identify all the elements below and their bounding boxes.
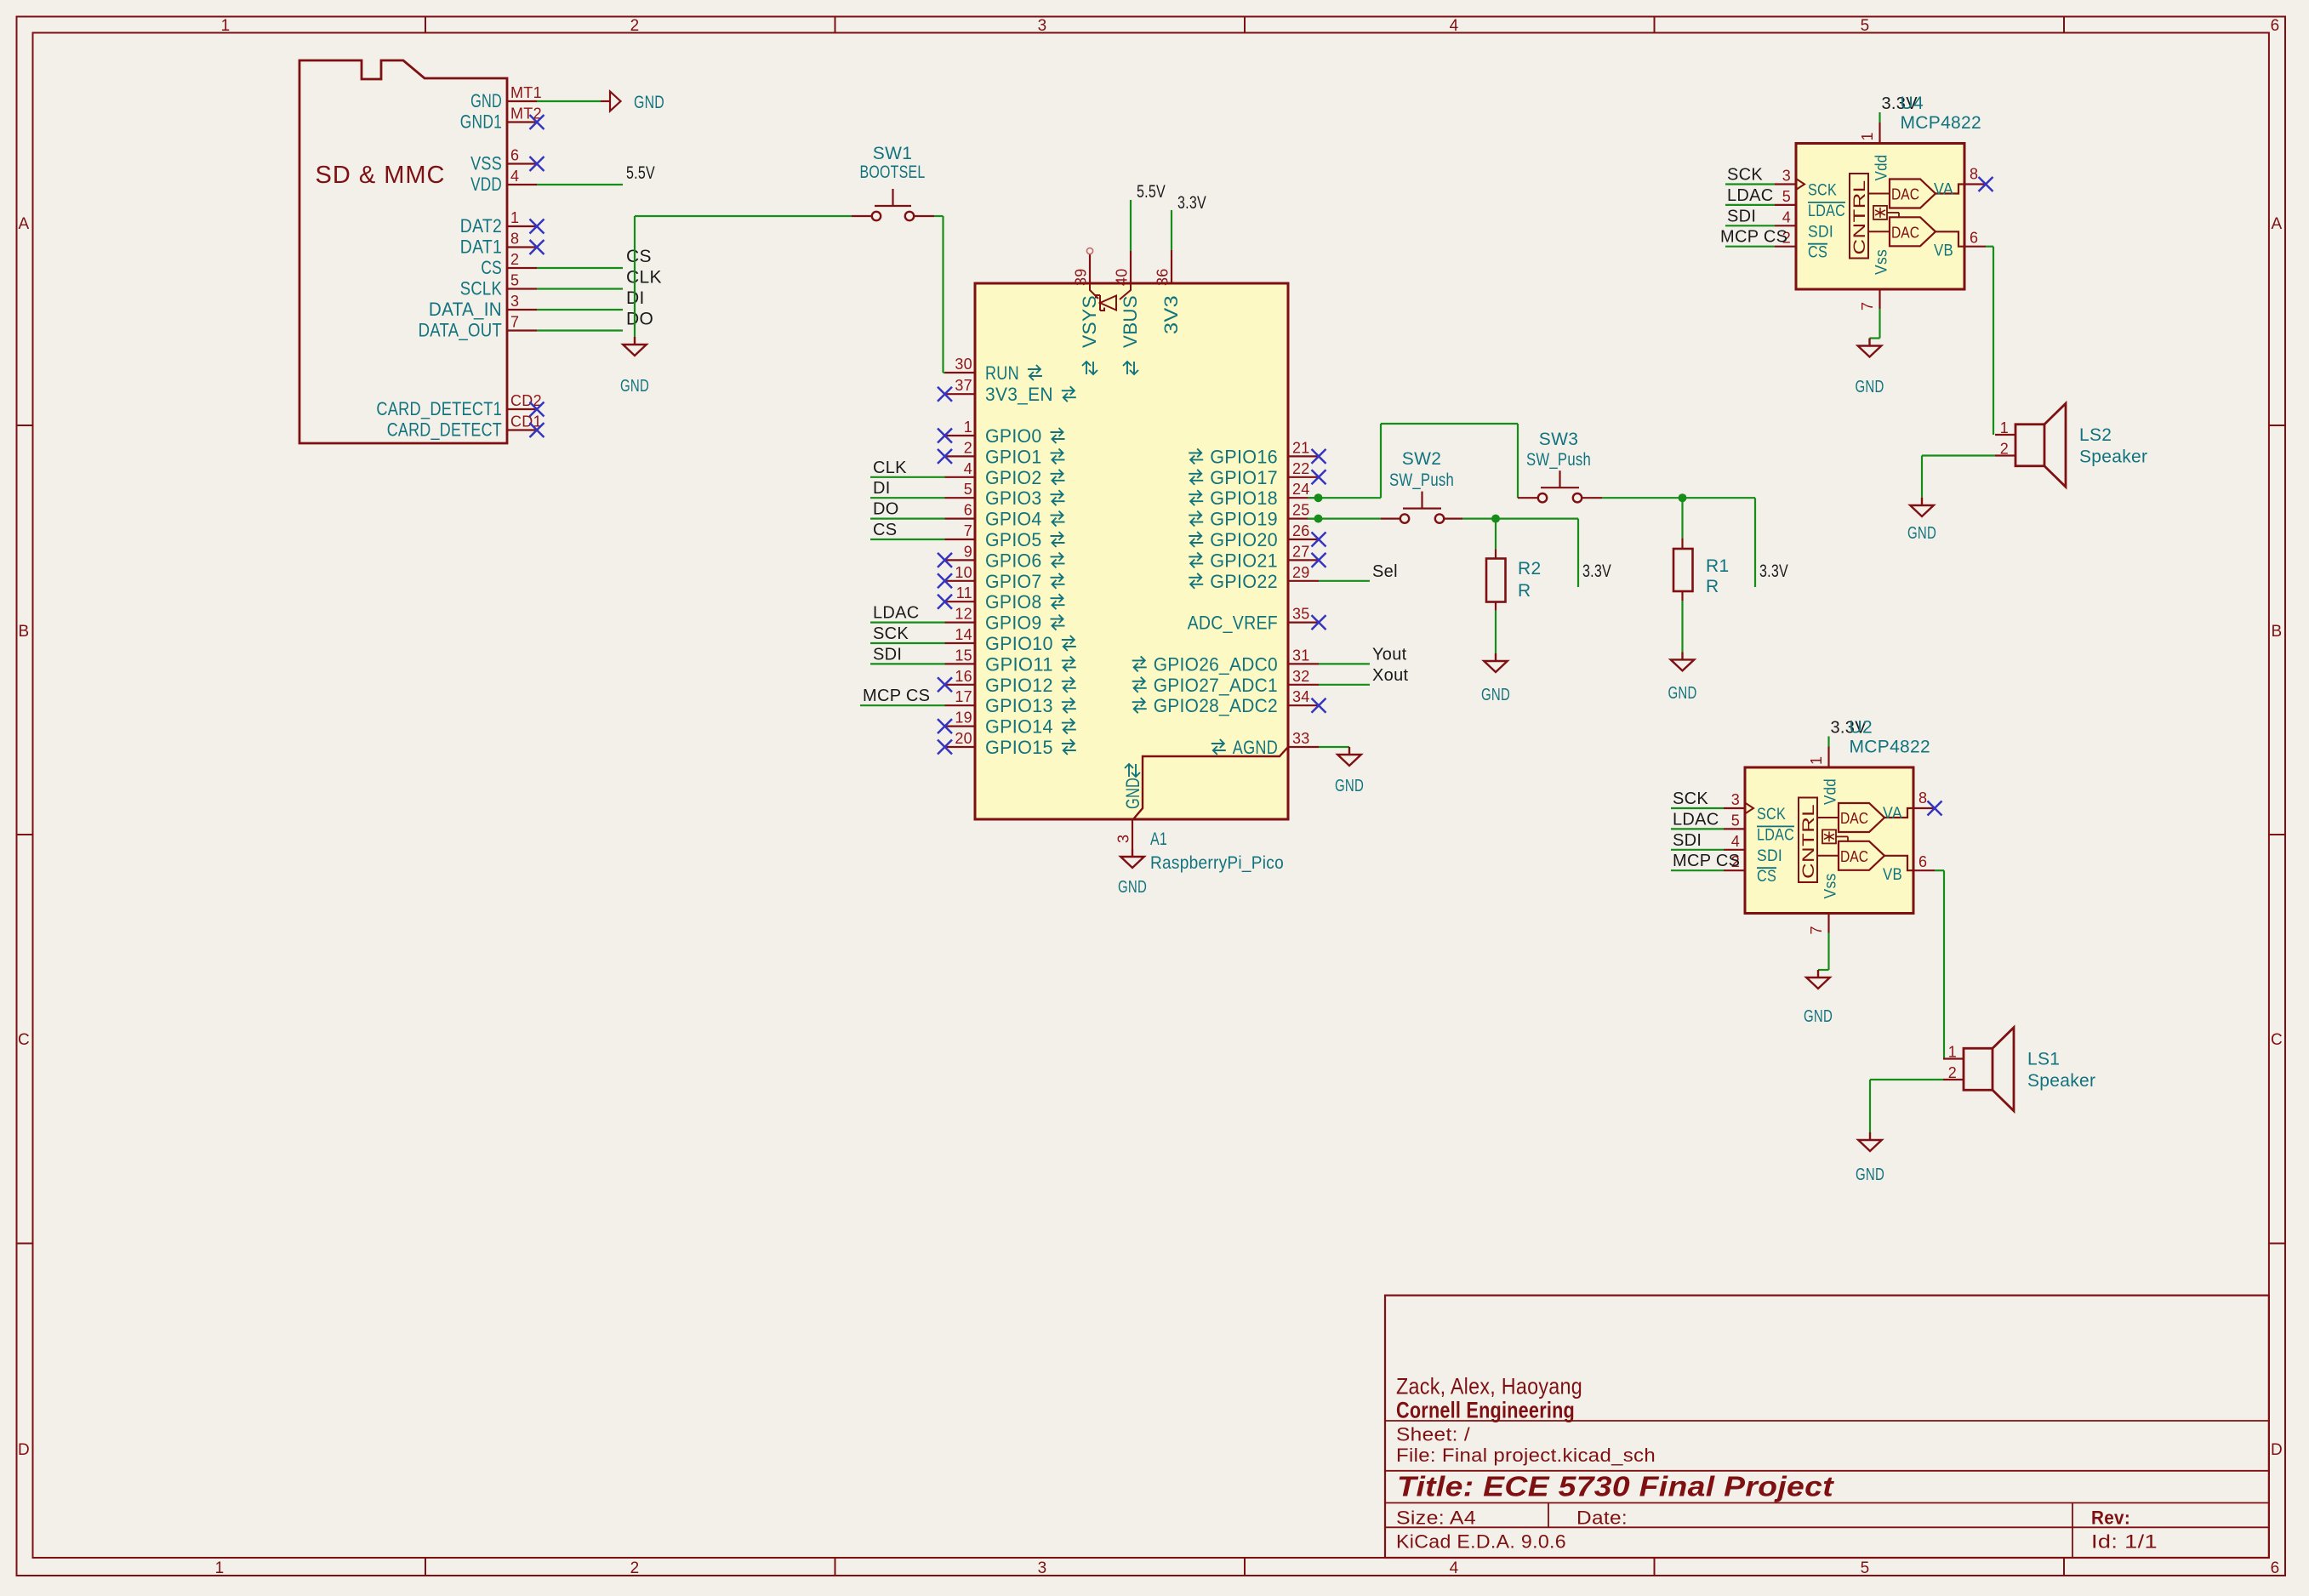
svg-text:GND: GND <box>620 377 649 396</box>
svg-text:DAC: DAC <box>1891 224 1919 241</box>
svg-text:CLK: CLK <box>626 268 662 288</box>
svg-text:MCP CS: MCP CS <box>1673 852 1740 870</box>
svg-text:3: 3 <box>1115 835 1132 843</box>
svg-text:3: 3 <box>1731 791 1740 808</box>
svg-text:VB: VB <box>1934 242 1953 260</box>
svg-text:LDAC: LDAC <box>1673 810 1719 829</box>
svg-text:GPIO5: GPIO5 <box>985 529 1042 550</box>
svg-text:LDAC: LDAC <box>873 604 920 623</box>
svg-text:B: B <box>19 623 30 641</box>
svg-text:Vdd: Vdd <box>1822 778 1840 805</box>
svg-text:Size: A4: Size: A4 <box>1396 1508 1476 1529</box>
svg-text:ADC_VREF: ADC_VREF <box>1188 613 1278 634</box>
svg-text:5.5V: 5.5V <box>1137 182 1166 202</box>
svg-text:4: 4 <box>1782 208 1791 225</box>
svg-text:DAC: DAC <box>1840 810 1868 827</box>
svg-text:DO: DO <box>626 310 653 329</box>
svg-text:GPIO2: GPIO2 <box>985 467 1042 488</box>
svg-text:SCK: SCK <box>873 624 909 643</box>
svg-text:Rev:: Rev: <box>2091 1507 2130 1528</box>
svg-text:11: 11 <box>956 584 972 601</box>
svg-text:27: 27 <box>1292 543 1310 560</box>
svg-text:Vss: Vss <box>1822 874 1840 899</box>
svg-text:26: 26 <box>1292 522 1310 539</box>
svg-text:14: 14 <box>955 626 972 643</box>
svg-text:5: 5 <box>1782 188 1791 205</box>
svg-text:DAC: DAC <box>1840 848 1868 865</box>
svg-text:GND: GND <box>1804 1007 1833 1026</box>
svg-text:GPIO12: GPIO12 <box>985 675 1053 696</box>
svg-text:GPIO21: GPIO21 <box>1210 550 1278 571</box>
svg-text:5: 5 <box>964 481 972 498</box>
svg-text:R: R <box>1518 581 1531 601</box>
svg-text:37: 37 <box>955 377 972 394</box>
svg-text:Vss: Vss <box>1873 249 1891 275</box>
svg-text:GND: GND <box>1856 1166 1884 1184</box>
svg-text:GND: GND <box>1668 684 1697 703</box>
svg-text:MT1: MT1 <box>510 84 542 101</box>
svg-text:Xout: Xout <box>1372 666 1408 685</box>
svg-text:GPIO6: GPIO6 <box>985 550 1042 571</box>
svg-text:SDI: SDI <box>1808 223 1833 241</box>
svg-text:CS: CS <box>626 247 652 266</box>
svg-text:1: 1 <box>964 419 972 436</box>
svg-text:8: 8 <box>1918 789 1927 807</box>
svg-text:CS: CS <box>1757 868 1776 886</box>
svg-text:R1: R1 <box>1706 556 1729 576</box>
svg-text:24: 24 <box>1292 481 1310 498</box>
svg-text:3V3: 3V3 <box>1160 295 1182 334</box>
svg-text:SW_Push: SW_Push <box>1389 470 1454 490</box>
svg-text:GPIO9: GPIO9 <box>985 613 1042 634</box>
svg-text:GPIO22: GPIO22 <box>1210 571 1278 592</box>
svg-text:C: C <box>2271 1031 2283 1049</box>
svg-text:AGND: AGND <box>1233 737 1278 758</box>
svg-text:39: 39 <box>1073 268 1090 286</box>
svg-text:GND: GND <box>1481 686 1510 704</box>
svg-text:6: 6 <box>1918 853 1927 870</box>
svg-text:33: 33 <box>1292 730 1310 747</box>
svg-text:D: D <box>2271 1441 2283 1459</box>
svg-text:A: A <box>2272 215 2283 233</box>
svg-text:SW3: SW3 <box>1539 430 1578 449</box>
svg-text:3V3_EN: 3V3_EN <box>985 384 1053 405</box>
svg-text:2: 2 <box>630 1559 640 1577</box>
svg-text:KiCad E.D.A. 9.0.6: KiCad E.D.A. 9.0.6 <box>1396 1531 1566 1553</box>
svg-text:VBUS: VBUS <box>1120 295 1141 348</box>
svg-text:GPIO20: GPIO20 <box>1210 529 1278 550</box>
svg-text:GND: GND <box>1122 778 1143 809</box>
svg-text:3: 3 <box>1038 17 1047 35</box>
svg-text:BOOTSEL: BOOTSEL <box>860 162 926 182</box>
svg-text:LS2: LS2 <box>2079 425 2112 445</box>
svg-text:C: C <box>18 1031 30 1049</box>
svg-text:R2: R2 <box>1518 559 1541 579</box>
svg-text:SCK: SCK <box>1757 806 1786 824</box>
svg-text:GND: GND <box>1907 524 1936 543</box>
svg-text:RaspberryPi_Pico: RaspberryPi_Pico <box>1150 853 1284 873</box>
svg-text:GPIO13: GPIO13 <box>985 695 1053 716</box>
svg-text:Date:: Date: <box>1576 1508 1628 1529</box>
svg-text:2: 2 <box>630 17 640 35</box>
svg-text:7: 7 <box>510 314 519 331</box>
svg-text:GPIO18: GPIO18 <box>1210 487 1278 509</box>
svg-text:SW_Push: SW_Push <box>1526 450 1591 470</box>
svg-text:SDI: SDI <box>1757 847 1782 865</box>
svg-text:CS: CS <box>481 257 502 278</box>
svg-text:GND1: GND1 <box>460 111 502 133</box>
svg-text:LDAC: LDAC <box>1757 826 1794 844</box>
svg-text:CS: CS <box>873 521 897 539</box>
svg-text:GPIO17: GPIO17 <box>1210 467 1278 488</box>
svg-text:34: 34 <box>1292 688 1310 705</box>
svg-text:3: 3 <box>1782 168 1791 185</box>
svg-text:U2: U2 <box>1850 718 1873 738</box>
svg-text:CNTRL: CNTRL <box>1851 180 1869 255</box>
svg-text:CARD_DETECT1: CARD_DETECT1 <box>376 398 502 419</box>
svg-text:20: 20 <box>955 730 972 747</box>
svg-text:DAT2: DAT2 <box>460 215 502 237</box>
svg-text:15: 15 <box>955 647 972 664</box>
svg-text:29: 29 <box>1292 564 1310 581</box>
svg-text:5.5V: 5.5V <box>626 163 655 183</box>
svg-text:6: 6 <box>510 147 519 164</box>
svg-text:SDI: SDI <box>873 645 902 664</box>
svg-text:4: 4 <box>510 168 519 185</box>
svg-text:Title: ECE 5730 Final Project: Title: ECE 5730 Final Project <box>1397 1470 1835 1502</box>
svg-text:GPIO3: GPIO3 <box>985 487 1042 509</box>
svg-text:CD2: CD2 <box>510 392 542 409</box>
svg-text:4: 4 <box>1731 833 1740 850</box>
svg-text:5: 5 <box>1731 812 1740 829</box>
svg-text:7: 7 <box>1808 926 1825 934</box>
svg-text:SW1: SW1 <box>873 144 912 163</box>
svg-text:VB: VB <box>1883 866 1902 884</box>
svg-text:GND: GND <box>1856 378 1884 396</box>
svg-text:1: 1 <box>510 209 519 226</box>
svg-text:DO: DO <box>873 500 899 519</box>
svg-text:GND: GND <box>470 90 502 111</box>
svg-text:1: 1 <box>2000 419 2009 436</box>
svg-text:GPIO10: GPIO10 <box>985 633 1053 654</box>
svg-text:3.3V: 3.3V <box>1177 193 1206 213</box>
svg-text:A: A <box>19 215 30 233</box>
svg-text:CD1: CD1 <box>510 413 542 430</box>
svg-text:GPIO14: GPIO14 <box>985 716 1053 738</box>
svg-text:3.3V: 3.3V <box>1582 561 1611 581</box>
svg-text:Vdd: Vdd <box>1873 155 1891 181</box>
svg-text:9: 9 <box>964 543 972 560</box>
svg-text:File: Final project.kicad_sch: File: Final project.kicad_sch <box>1396 1445 1656 1466</box>
svg-text:LS1: LS1 <box>2027 1050 2060 1069</box>
svg-text:5: 5 <box>1861 17 1870 35</box>
svg-text:1: 1 <box>1808 756 1825 765</box>
svg-text:22: 22 <box>1292 460 1310 477</box>
svg-text:6: 6 <box>2271 17 2280 35</box>
svg-text:1: 1 <box>1948 1044 1957 1061</box>
svg-text:DAC: DAC <box>1891 186 1919 203</box>
svg-text:MCP CS: MCP CS <box>863 687 930 705</box>
svg-text:2: 2 <box>1948 1064 1957 1081</box>
svg-text:Zack, Alex, Haoyang: Zack, Alex, Haoyang <box>1396 1374 1582 1399</box>
svg-text:SCK: SCK <box>1727 166 1763 185</box>
svg-text:6: 6 <box>1970 230 1978 247</box>
svg-text:21: 21 <box>1292 439 1310 456</box>
svg-text:VSS: VSS <box>470 153 502 174</box>
svg-text:7: 7 <box>1859 302 1876 311</box>
svg-text:Sel: Sel <box>1372 562 1398 581</box>
svg-text:25: 25 <box>1292 502 1310 519</box>
svg-text:DAT1: DAT1 <box>460 237 502 258</box>
svg-text:GND: GND <box>634 93 664 112</box>
svg-text:8: 8 <box>510 231 519 248</box>
svg-text:1: 1 <box>215 1559 225 1577</box>
svg-text:GND: GND <box>1118 878 1147 897</box>
svg-text:3.3V: 3.3V <box>1759 561 1788 581</box>
svg-text:GPIO0: GPIO0 <box>985 425 1042 447</box>
svg-text:SDI: SDI <box>1673 831 1702 850</box>
svg-text:6: 6 <box>2271 1559 2280 1577</box>
svg-text:VSYS: VSYS <box>1079 295 1100 348</box>
svg-text:30: 30 <box>955 356 972 373</box>
svg-text:1: 1 <box>1859 132 1876 140</box>
svg-text:LDAC: LDAC <box>1727 186 1774 205</box>
svg-text:GPIO15: GPIO15 <box>985 737 1053 758</box>
svg-text:DATA_OUT: DATA_OUT <box>419 320 502 341</box>
svg-text:35: 35 <box>1292 606 1310 623</box>
svg-text:32: 32 <box>1292 668 1310 685</box>
svg-text:RUN: RUN <box>985 362 1019 384</box>
svg-text:MT2: MT2 <box>510 105 542 123</box>
svg-text:SCLK: SCLK <box>460 278 502 299</box>
svg-text:2: 2 <box>964 439 972 456</box>
svg-text:3: 3 <box>1038 1559 1047 1577</box>
svg-text:GPIO16: GPIO16 <box>1210 446 1278 467</box>
svg-text:GPIO28_ADC2: GPIO28_ADC2 <box>1154 695 1278 716</box>
svg-text:D: D <box>18 1441 30 1459</box>
svg-text:5: 5 <box>510 272 519 289</box>
svg-text:MCP CS: MCP CS <box>1720 228 1787 247</box>
svg-text:7: 7 <box>964 522 972 539</box>
svg-text:10: 10 <box>955 564 972 581</box>
svg-text:SCK: SCK <box>1673 789 1708 808</box>
svg-text:CLK: CLK <box>873 459 907 477</box>
svg-text:19: 19 <box>955 710 972 727</box>
svg-text:Yout: Yout <box>1372 645 1407 664</box>
svg-text:SDI: SDI <box>1727 207 1756 225</box>
svg-text:3: 3 <box>510 293 519 310</box>
svg-text:2: 2 <box>2000 441 2009 458</box>
svg-text:GPIO1: GPIO1 <box>985 446 1042 467</box>
svg-text:GND: GND <box>1335 777 1364 795</box>
svg-text:CARD_DETECT: CARD_DETECT <box>387 419 502 441</box>
svg-text:SD & MMC: SD & MMC <box>316 162 446 189</box>
svg-text:R: R <box>1706 577 1719 596</box>
svg-text:MCP4822: MCP4822 <box>1901 113 1981 133</box>
svg-text:CS: CS <box>1808 244 1827 262</box>
svg-text:LDAC: LDAC <box>1808 202 1845 220</box>
svg-text:Speaker: Speaker <box>2079 447 2147 467</box>
svg-text:GPIO4: GPIO4 <box>985 509 1042 530</box>
svg-text:6: 6 <box>964 502 972 519</box>
svg-text:4: 4 <box>964 460 972 477</box>
svg-text:MCP4822: MCP4822 <box>1850 738 1930 757</box>
svg-text:CNTRL: CNTRL <box>1800 804 1818 879</box>
svg-text:A1: A1 <box>1150 829 1167 849</box>
svg-text:SW2: SW2 <box>1402 449 1441 469</box>
svg-text:12: 12 <box>955 606 972 623</box>
svg-text:VDD: VDD <box>470 174 502 195</box>
svg-text:36: 36 <box>1154 268 1172 286</box>
svg-text:Id: 1/1: Id: 1/1 <box>2091 1531 2158 1553</box>
svg-text:GPIO27_ADC1: GPIO27_ADC1 <box>1154 675 1278 696</box>
svg-text:4: 4 <box>1450 17 1459 35</box>
svg-text:Sheet: /: Sheet: / <box>1396 1423 1471 1445</box>
svg-text:1: 1 <box>221 17 231 35</box>
svg-text:4: 4 <box>1450 1559 1459 1577</box>
svg-text:U4: U4 <box>1901 94 1924 113</box>
svg-text:DATA_IN: DATA_IN <box>429 299 502 320</box>
svg-text:16: 16 <box>955 668 972 685</box>
svg-text:VA: VA <box>1883 805 1902 823</box>
svg-text:B: B <box>2272 623 2283 641</box>
svg-text:8: 8 <box>1970 166 1978 183</box>
svg-text:GPIO7: GPIO7 <box>985 571 1042 592</box>
svg-text:Speaker: Speaker <box>2027 1071 2095 1091</box>
svg-text:GPIO8: GPIO8 <box>985 591 1042 613</box>
svg-text:GPIO11: GPIO11 <box>985 653 1053 675</box>
svg-text:2: 2 <box>510 251 519 268</box>
svg-text:DI: DI <box>873 479 891 498</box>
svg-text:40: 40 <box>1114 268 1131 286</box>
svg-text:Cornell Engineering: Cornell Engineering <box>1396 1398 1575 1423</box>
svg-text:17: 17 <box>955 688 972 705</box>
svg-text:GPIO26_ADC0: GPIO26_ADC0 <box>1154 653 1278 675</box>
svg-text:GPIO19: GPIO19 <box>1210 509 1278 530</box>
svg-text:VA: VA <box>1934 181 1953 199</box>
svg-text:SCK: SCK <box>1808 182 1837 200</box>
svg-text:31: 31 <box>1292 647 1310 664</box>
svg-text:5: 5 <box>1861 1559 1870 1577</box>
